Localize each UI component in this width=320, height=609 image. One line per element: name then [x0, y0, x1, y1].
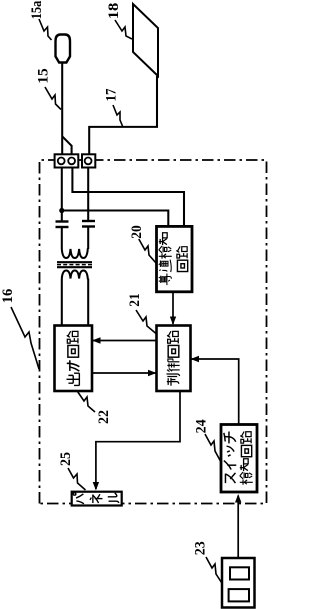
leader line for 16	[11, 307, 39, 369]
wire: box23 to box24 (arrow right into box24)	[235, 494, 241, 558]
svg-text:20: 20	[129, 225, 145, 239]
svg-text:21: 21	[127, 293, 143, 307]
connector block (two terminals, AC inlet)	[55, 154, 79, 167]
svg-text:24: 24	[193, 419, 209, 433]
transformer secondary winding	[62, 271, 88, 279]
wire: box21 to box22 (arrow up into box22)	[92, 337, 157, 343]
svg-text:25: 25	[58, 452, 74, 466]
transformer primary winding	[62, 249, 88, 258]
cord 15 (from plug to connector)	[61, 63, 63, 155]
svg-text:16: 16	[0, 288, 16, 303]
svg-text:17: 17	[103, 88, 119, 101]
leader line for 18	[115, 20, 132, 39]
leader line for 15a	[39, 19, 52, 40]
svg-text:18: 18	[106, 3, 122, 20]
wire from terminal N down and to detection circuit 20	[72, 168, 184, 227]
svg-text:23: 23	[193, 541, 209, 555]
button 2	[230, 567, 249, 579]
leader line for 15	[45, 87, 61, 110]
wire capacitor N to transformer	[87, 226, 89, 249]
box 21: control circuit 制御回路	[157, 326, 191, 392]
wire secondary to output circuit (lower)	[87, 279, 89, 326]
box 20: conduction detection circuit 導通検知回路	[157, 226, 193, 291]
leader line for 25	[68, 468, 86, 490]
wire 17 (display to connector)	[89, 76, 157, 154]
wire branch from junction to detection circuit 20	[62, 211, 169, 227]
wire: box24 to box21 (arrow up into box21 bottom)	[191, 356, 239, 425]
display panel 18 (parallelogram)	[133, 4, 158, 76]
capacitor on line L	[56, 222, 69, 228]
svg-text:22: 22	[96, 410, 112, 424]
junction node	[59, 208, 64, 213]
wire from single terminal to capacitor	[87, 168, 89, 222]
leader line for 21	[136, 310, 156, 334]
transformer core	[57, 261, 92, 263]
capacitor on line N	[82, 221, 95, 227]
box 24: switch detection circuit スイッチ検知回路	[221, 425, 257, 493]
leader line for 24	[205, 434, 222, 463]
svg-text:15: 15	[36, 68, 52, 84]
wire from terminal L to capacitor and junction	[61, 168, 63, 222]
border of unit 16 (dash-dot frame)	[40, 160, 267, 504]
box 22: output circuit 出力回路	[55, 326, 93, 392]
svg-text:15a: 15a	[29, 0, 45, 19]
cord second conductor (diagonal into second terminal)	[62, 136, 71, 154]
plug 15a	[56, 35, 71, 63]
box 23: remote switch unit	[222, 558, 255, 608]
wire: box21 to panel 25 (arrow into panel)	[93, 391, 180, 491]
leader line for 23	[206, 557, 223, 584]
wire secondary to output circuit (upper)	[61, 279, 63, 326]
connector block (single terminal)	[82, 154, 95, 167]
leader line for 22	[78, 392, 96, 413]
leader line for 20	[139, 239, 156, 263]
arrow: box20 to box21	[170, 292, 176, 325]
box 25: panel パネル	[72, 492, 122, 506]
wire: box22 to box21 (arrow down into box21)	[92, 370, 157, 376]
button 1	[229, 589, 249, 601]
leader line for 17	[113, 105, 123, 126]
wire capacitor L to transformer	[61, 227, 63, 249]
